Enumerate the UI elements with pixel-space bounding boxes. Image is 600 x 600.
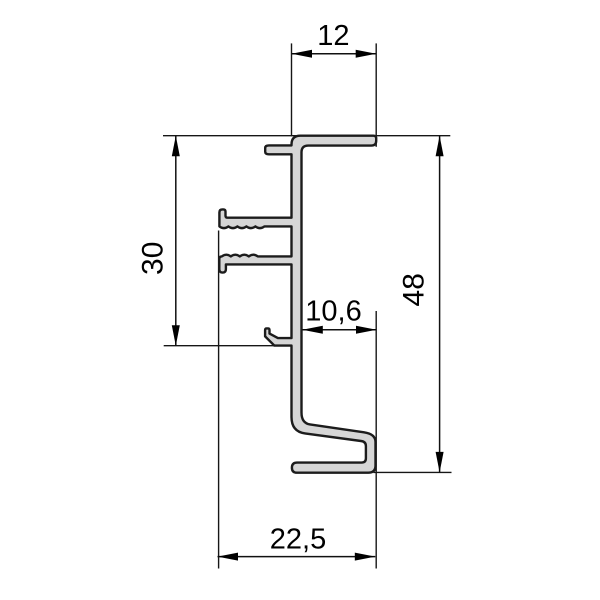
arrow 10,6 right — [356, 326, 377, 334]
extension line 22,5-left (x=218.6) — [218, 231, 220, 569]
arrow 30 top — [172, 136, 180, 157]
dimension line 22,5 (y=556.6) — [218, 556, 376, 558]
extension line right lower (x=376.2) — [375, 311, 377, 569]
aluminium profile cross-section — [219, 136, 376, 473]
arrow 12 right — [356, 50, 377, 58]
arrow 12 left — [292, 50, 313, 58]
svg-text:12: 12 — [317, 20, 349, 52]
extension line 48-bottom (y=472.4) — [374, 471, 452, 473]
arrow 30 bottom — [172, 325, 180, 346]
arrow 48 top — [436, 136, 444, 157]
svg-text:10,6: 10,6 — [305, 295, 361, 327]
arrow 10,6 left — [302, 326, 323, 334]
dimension line 10,6 (y=329.7) — [302, 329, 376, 331]
dimension line 12 (y=53.7) — [292, 53, 377, 55]
dimension line 30 (x=175.8) — [175, 136, 177, 346]
extension line 30-bottom (y=345.7) — [164, 345, 278, 347]
extension line 12-left (x=291.5) — [291, 43, 293, 136]
dimension line 48 (x=439.6) — [439, 136, 441, 473]
extension line top (y=135.7) — [163, 135, 450, 137]
extension line 12-right (x=376.2) — [375, 43, 377, 146]
arrow 22,5 right — [355, 553, 376, 561]
svg-text:30: 30 — [137, 242, 170, 275]
arrow 48 bottom — [436, 452, 444, 473]
svg-text:48: 48 — [397, 273, 430, 306]
svg-text:22,5: 22,5 — [270, 524, 326, 556]
arrow 22,5 left — [218, 553, 239, 561]
